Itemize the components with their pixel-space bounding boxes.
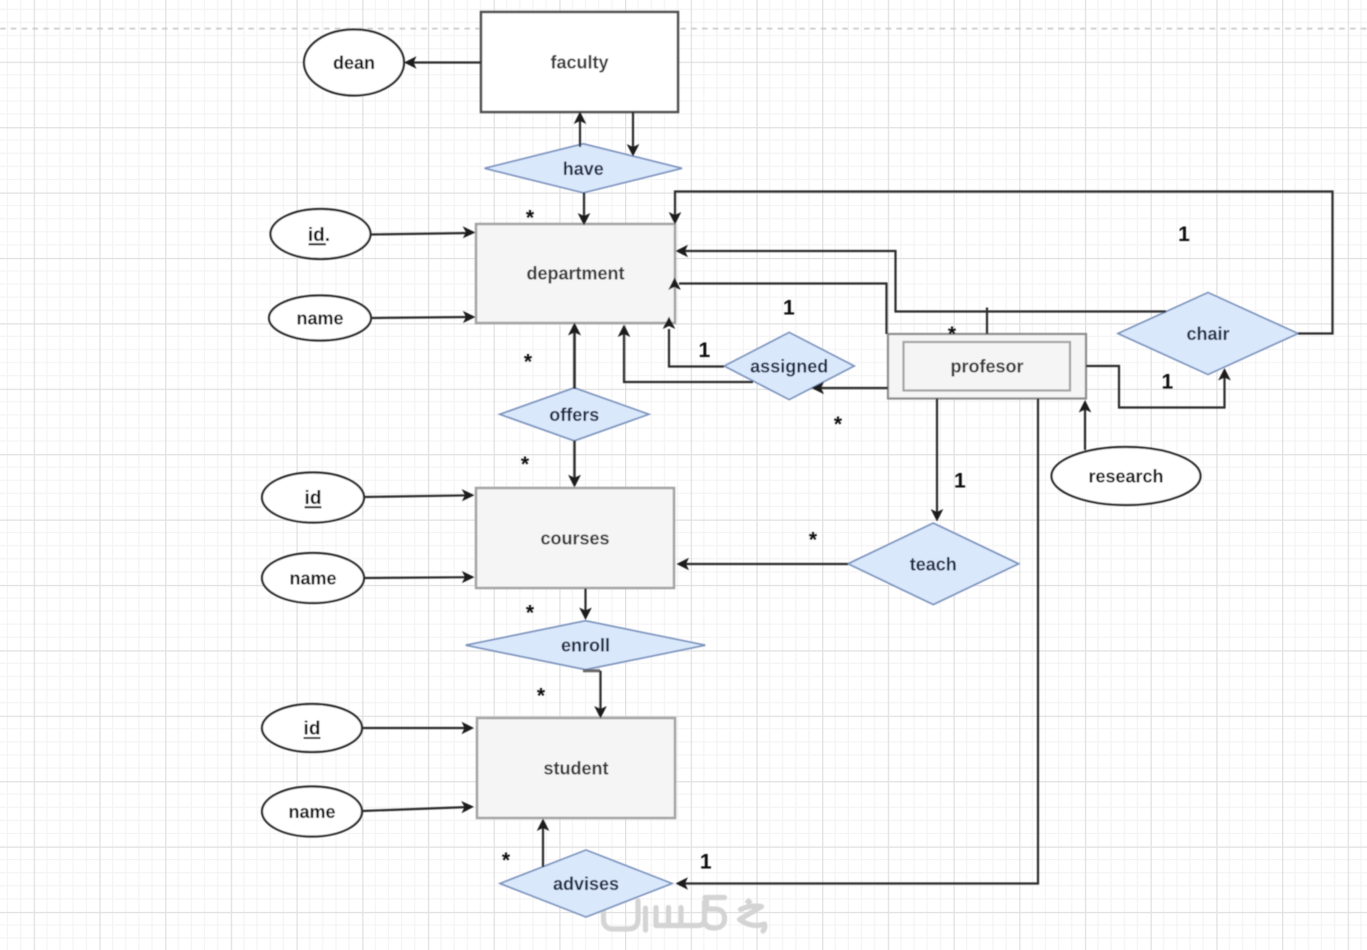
svg-text:1: 1 (700, 850, 712, 873)
svg-text:1: 1 (954, 470, 966, 493)
wire research-profesor (up arrow) (1079, 400, 1092, 450)
watermark khamsat (604, 895, 765, 931)
svg-text:chair: chair (1186, 324, 1229, 344)
wire chair-department middle (left arrow) (676, 245, 1167, 312)
wire have-faculty (up arrow) (574, 112, 587, 148)
wire name-department (370, 311, 476, 323)
wire profesor top stub (986, 308, 988, 335)
attribute name (department) (269, 296, 371, 341)
svg-text:department: department (526, 264, 624, 284)
svg-text:*: * (537, 685, 546, 708)
wire name-student (362, 801, 474, 813)
entity department (476, 224, 675, 323)
label 1 (assigned-department wire) (699, 339, 711, 362)
relationship enroll (466, 621, 706, 670)
svg-text:name: name (296, 309, 343, 329)
svg-text:advises: advises (553, 874, 619, 894)
label 1 (profesor-teach wire) (954, 470, 966, 493)
wire profesor-advises (left arrow) (676, 399, 1039, 890)
svg-text:research: research (1088, 467, 1163, 487)
relationship have (485, 144, 682, 193)
label 1 (profesor-chair wire) (1162, 371, 1174, 394)
svg-text:*: * (834, 413, 843, 436)
wire enroll-student (down arrow, gray tick) (583, 671, 607, 719)
attribute id (courses) (262, 473, 364, 523)
wire teach-courses (left arrow) (677, 558, 849, 571)
label * (above courses) (521, 453, 530, 476)
svg-text:name: name (289, 569, 336, 589)
svg-text:student: student (544, 759, 609, 779)
svg-text:id: id (304, 719, 321, 740)
label 1 (advises wire) (700, 850, 712, 873)
svg-text:faculty: faculty (550, 53, 608, 73)
wire profesor-assigned (left arrow) (812, 382, 889, 395)
entity student (477, 718, 675, 818)
relationship offers (500, 388, 649, 441)
label 1 (chair-department wire) (783, 297, 795, 320)
wire advises-student (up arrow) (537, 819, 550, 868)
wire faculty-have (down arrow) (627, 112, 640, 157)
label 1 (top right) (1178, 223, 1190, 246)
wire assigned-department lower (up arrow) (618, 325, 753, 383)
wire offers-department (up arrow) (568, 323, 581, 390)
label * (below courses) (526, 602, 535, 625)
svg-text:*: * (526, 602, 535, 625)
relationship teach (848, 523, 1019, 604)
svg-text:id: id (305, 488, 322, 509)
wire id-department (370, 226, 476, 238)
svg-text:*: * (948, 323, 957, 346)
svg-text:*: * (524, 351, 533, 374)
wire dean-faculty (404, 56, 481, 69)
label * (above advises) (502, 849, 511, 872)
attribute dean (304, 30, 404, 96)
attribute name (courses) (262, 553, 364, 603)
svg-text:dean: dean (333, 53, 375, 73)
wire profesor-teach (down arrow) (931, 399, 944, 522)
entity courses (476, 488, 674, 588)
label * (below department) (524, 351, 533, 374)
svg-text:1: 1 (699, 339, 711, 362)
wire chair-department top loop (down arrow) (669, 192, 1333, 334)
wire have-department (down arrow) (578, 193, 591, 226)
attribute name (student) (262, 787, 362, 837)
svg-text:*: * (526, 207, 535, 230)
svg-text:1: 1 (783, 297, 795, 320)
svg-text:assigned: assigned (750, 357, 828, 377)
wire assigned-department (up arrow via left) (663, 317, 724, 367)
page boundary dashed line (0, 28, 1367, 30)
wire id-courses (363, 489, 475, 501)
svg-text:teach: teach (910, 554, 957, 574)
attribute research (1052, 447, 1201, 505)
entity faculty (481, 12, 678, 112)
svg-text:*: * (502, 849, 511, 872)
svg-text:1: 1 (1162, 371, 1174, 394)
entity profesor (weak, double border) (888, 334, 1086, 399)
wire id-student (362, 722, 474, 735)
svg-text:*: * (809, 529, 818, 552)
wire offers-courses (down arrow) (568, 441, 581, 488)
label * (below assigned) (834, 413, 843, 436)
label * (above student) (537, 685, 546, 708)
svg-text:courses: courses (540, 529, 609, 549)
label * (left of teach) (809, 529, 818, 552)
svg-text:name: name (288, 802, 335, 822)
wire profesor-chair (up arrow) (1086, 366, 1231, 408)
wire profesor-department corner (up arrow) (668, 278, 886, 335)
svg-text:have: have (563, 159, 604, 179)
svg-text:enroll: enroll (561, 636, 610, 656)
svg-text:profesor: profesor (950, 357, 1023, 377)
relationship advises (500, 850, 672, 917)
attribute id (student) (262, 704, 362, 752)
wire name-courses (363, 571, 475, 583)
watermark khamsat dot (745, 898, 753, 906)
svg-text:*: * (521, 453, 530, 476)
svg-text:id.: id. (308, 225, 330, 246)
attribute id. (271, 209, 371, 259)
relationship chair (1118, 293, 1298, 375)
relationship assigned (724, 332, 854, 399)
label * (above department) (526, 207, 535, 230)
wire courses-enroll (down arrow) (579, 589, 592, 621)
svg-text:offers: offers (549, 405, 599, 425)
label * (above profesor) (948, 323, 957, 346)
svg-text:1: 1 (1178, 223, 1190, 246)
